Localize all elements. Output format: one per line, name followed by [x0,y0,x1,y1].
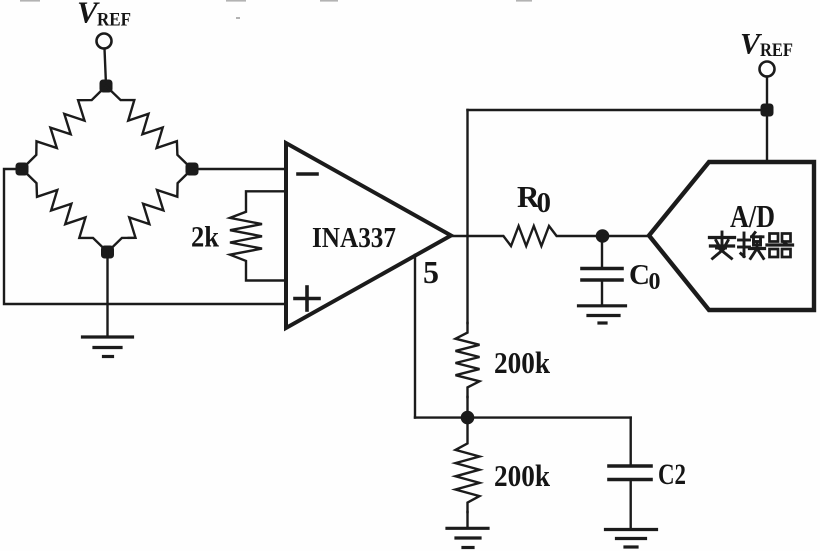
resistor R0 [451,226,603,246]
wire VREF node down to A/D top [766,110,768,162]
svg-text:INA337: INA337 [312,222,396,254]
svg-text:2k: 2k [191,221,219,254]
resistor 200k (upper) [456,323,480,397]
svg-text:0: 0 [649,269,661,295]
wire bridge right node to -input [192,168,286,170]
glyph 器 [767,234,793,258]
node divider junction [461,411,475,425]
node bridge left [16,163,29,176]
label C0 [629,259,661,295]
terminal VREF (top-left open circle) [97,34,112,49]
capacitor C2 wire down from horizontal wire [630,418,632,465]
wire VREF terminal to bridge top node [105,49,106,81]
capacitor C2 plates [609,466,651,480]
bridge resistor bottom-left [22,169,108,252]
capacitor C0 plates [582,269,622,281]
glyph 变 [710,232,735,259]
node bridge bottom [101,246,114,259]
svg-text:200k: 200k [494,458,551,493]
terminal VREF (top-right open circle) [760,62,775,77]
wire 200k lower to ground [466,512,468,527]
node bridge right [186,163,199,176]
wire divider vertical (VREF line down to 200k) [466,110,468,323]
wire bridge bottom node to ground [106,252,108,336]
scan artifact top edge dashes [20,0,532,19]
svg-text:C2: C2 [658,458,686,491]
A/D converter block (pentagon) [649,162,814,310]
bridge resistor top-right [106,86,192,169]
label 变换器 (custom drawn glyphs) [710,232,793,259]
wire bridge left node to +input (left, down, right) [4,169,286,304]
op-amp minus sign [298,172,317,176]
label VREF (top-right) [740,28,793,62]
svg-text:C: C [629,259,650,291]
ground (C0) [579,306,626,323]
op-amp U1 INA337 triangle [286,143,451,328]
svg-text:A/D: A/D [730,198,775,234]
wire VREF node left to divider line [468,109,768,111]
svg-text:200k: 200k [494,345,551,380]
ground (bridge) [83,337,133,357]
wire divider node horizontal (pin5 to C2) [415,416,631,418]
resistor 2k (gain resistor, bracket to op-amp left edge) [230,191,286,280]
node output/C0 junction [596,229,610,243]
svg-text:0: 0 [537,187,552,219]
node bridge top [100,80,113,93]
bridge resistor bottom-right [108,169,193,252]
label R0 [517,179,551,219]
svg-text:5: 5 [423,254,439,290]
wire C0 to ground [601,280,603,305]
svg-text:REF: REF [97,10,131,31]
ground (C2) [606,530,657,548]
wire C2 to ground [630,480,632,529]
wire node to A/D apex [603,235,651,237]
node VREF / A-D supply [761,104,774,117]
glyph 换 [739,233,765,259]
resistor 200k (lower) [456,418,480,512]
svg-text:REF: REF [760,40,793,61]
capacitor C0 wire from node [601,236,603,267]
op-amp plus sign [295,287,319,310]
bridge resistor top-left [22,86,106,169]
wire VREF terminal down to node [766,77,768,105]
wire 200k upper to node [466,397,468,418]
ground (200k lower) [447,528,488,547]
wire pin5 from op-amp edge down [414,255,416,418]
label VREF (top-left) [77,0,131,31]
